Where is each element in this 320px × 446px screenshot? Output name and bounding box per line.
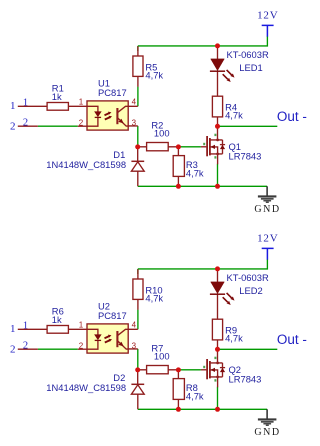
junction node (178.4,369.9) (176, 367, 181, 372)
opto U1 phototransistor (116, 108, 118, 124)
opto U1 light arrows (105, 113, 111, 120)
svg-text:100: 100 (154, 351, 170, 362)
resistor R2 (138, 146, 179, 148)
svg-text:1: 1 (10, 323, 16, 335)
svg-text:4,7k: 4,7k (186, 168, 204, 179)
wire input line 1 left (18, 105, 47, 107)
wire input line 2 left stub (18, 125, 38, 127)
wire 12V rail (top) (138, 36, 268, 46)
junction node (178.4,186.3) (176, 184, 181, 189)
transistor Q1 (217, 126, 219, 164)
svg-text:1: 1 (10, 100, 16, 112)
wire input line 1 left (18, 328, 47, 330)
power port 12V bar (262, 25, 274, 36)
wire R5 top (137, 46, 139, 51)
svg-text:2: 2 (23, 118, 28, 129)
junction node (217.5,186.3) (215, 184, 220, 189)
resistor R4 (217, 117, 219, 126)
svg-text:4,7k: 4,7k (225, 333, 243, 344)
svg-text:4: 4 (132, 98, 137, 107)
resistor R7 (138, 369, 179, 371)
svg-text:100: 100 (154, 128, 170, 139)
LED LED1 (217, 46, 219, 96)
svg-text:LED1: LED1 (239, 62, 262, 73)
junction node (137.7,146.9) (135, 144, 140, 149)
ground symbol (266, 409, 268, 419)
svg-text:KT-0603R: KT-0603R (227, 49, 269, 60)
svg-text:GND: GND (254, 204, 280, 215)
wire gate net (178, 146, 201, 148)
svg-text:4,7k: 4,7k (145, 69, 163, 80)
power port 12V bar (262, 248, 274, 259)
resistor R10 (137, 269, 139, 310)
LED LED1 light arrows (223, 70, 232, 79)
junction node (178.4,146.9) (176, 144, 181, 149)
wire R10 bottom to opto pin4 (137, 310, 139, 330)
transistor Q2 (217, 349, 219, 387)
ground symbol (266, 186, 268, 196)
resistor R5 (137, 46, 139, 87)
svg-text:4,7k: 4,7k (225, 110, 243, 121)
wire opto pin2 stub (78, 348, 87, 350)
svg-text:1: 1 (79, 321, 84, 330)
wire Q2 source down (217, 387, 219, 410)
transistor Q2 tiny pin marks (214, 357, 216, 359)
LED LED2 light arrows (223, 293, 232, 302)
svg-text:1: 1 (23, 321, 28, 332)
svg-text:1N4148W_C81598: 1N4148W_C81598 (46, 159, 126, 170)
svg-text:3: 3 (132, 341, 137, 350)
LED LED2 (217, 269, 219, 319)
transistor Q1 tiny pin marks (214, 134, 216, 136)
svg-text:2: 2 (10, 343, 16, 355)
svg-text:4,7k: 4,7k (145, 292, 163, 303)
svg-text:Out -: Out - (277, 332, 307, 347)
wire R10 top (137, 269, 139, 274)
svg-text:12V: 12V (257, 10, 278, 22)
svg-text:1k: 1k (52, 91, 62, 102)
svg-text:2: 2 (10, 120, 16, 132)
wire input line 2 (38, 125, 78, 127)
resistor R9 (217, 340, 219, 349)
wire input line 1 right (68, 105, 87, 107)
wire gate net (178, 369, 201, 371)
wire Q1 source down (217, 164, 219, 187)
svg-text:4: 4 (132, 321, 137, 330)
opto-coupler U1 body (128, 106, 138, 126)
junction node (217.5,126.3) (215, 124, 220, 129)
wire opto pin3 down to node (137, 349, 139, 370)
svg-text:2: 2 (79, 118, 84, 127)
svg-text:GND: GND (254, 427, 280, 438)
svg-text:1: 1 (23, 98, 28, 109)
svg-text:PC817: PC817 (98, 87, 127, 98)
diode D1 (137, 147, 139, 186)
channel 2 (10, 233, 307, 438)
opto U2 internal LED (87, 329, 98, 349)
svg-text:2: 2 (23, 341, 28, 352)
junction node (137.7,369.9) (135, 367, 140, 372)
svg-text:PC817: PC817 (98, 310, 127, 321)
svg-text:KT-0603R: KT-0603R (227, 272, 269, 283)
svg-text:4,7k: 4,7k (186, 391, 204, 402)
resistor R3 (177, 147, 179, 186)
svg-text:1k: 1k (52, 314, 62, 325)
wire ground rail (138, 185, 267, 187)
opto-coupler U2 body (128, 329, 138, 349)
wire Out- net (218, 125, 278, 127)
wire 12V rail (top) (138, 259, 268, 269)
resistor R8 (177, 370, 179, 409)
resistor R1 (47, 103, 68, 111)
svg-text:Out -: Out - (277, 109, 307, 124)
diode D2 (137, 370, 139, 409)
junction node (217.5,409.3) (215, 407, 220, 412)
junction node (217.5,349.3) (215, 347, 220, 352)
svg-text:2: 2 (79, 341, 84, 350)
svg-text:1N4148W_C81598: 1N4148W_C81598 (46, 382, 126, 393)
opto U1 internal LED (87, 106, 98, 126)
junction node (178.4,409.3) (176, 407, 181, 412)
svg-text:12V: 12V (257, 233, 278, 245)
svg-text:LED2: LED2 (239, 285, 262, 296)
wire input line 2 (38, 348, 78, 350)
svg-text:LR7843: LR7843 (229, 150, 262, 161)
resistor R6 (47, 326, 68, 334)
wire R5 bottom to opto pin4 (137, 87, 139, 107)
wire Out- net (218, 348, 278, 350)
opto U2 light arrows (105, 336, 111, 343)
junction node (217.5,45.9) (215, 43, 220, 48)
wire opto pin2 stub (78, 125, 87, 127)
svg-text:1: 1 (79, 98, 84, 107)
wire opto pin3 down to node (137, 126, 139, 147)
wire input line 1 right (68, 328, 87, 330)
wire ground rail (138, 408, 267, 410)
channel 1 (10, 10, 307, 215)
svg-text:LR7843: LR7843 (229, 373, 262, 384)
junction node (217.5,268.9) (215, 266, 220, 271)
wire input line 2 left stub (18, 348, 38, 350)
opto U2 phototransistor (116, 331, 118, 347)
svg-text:3: 3 (132, 118, 137, 127)
